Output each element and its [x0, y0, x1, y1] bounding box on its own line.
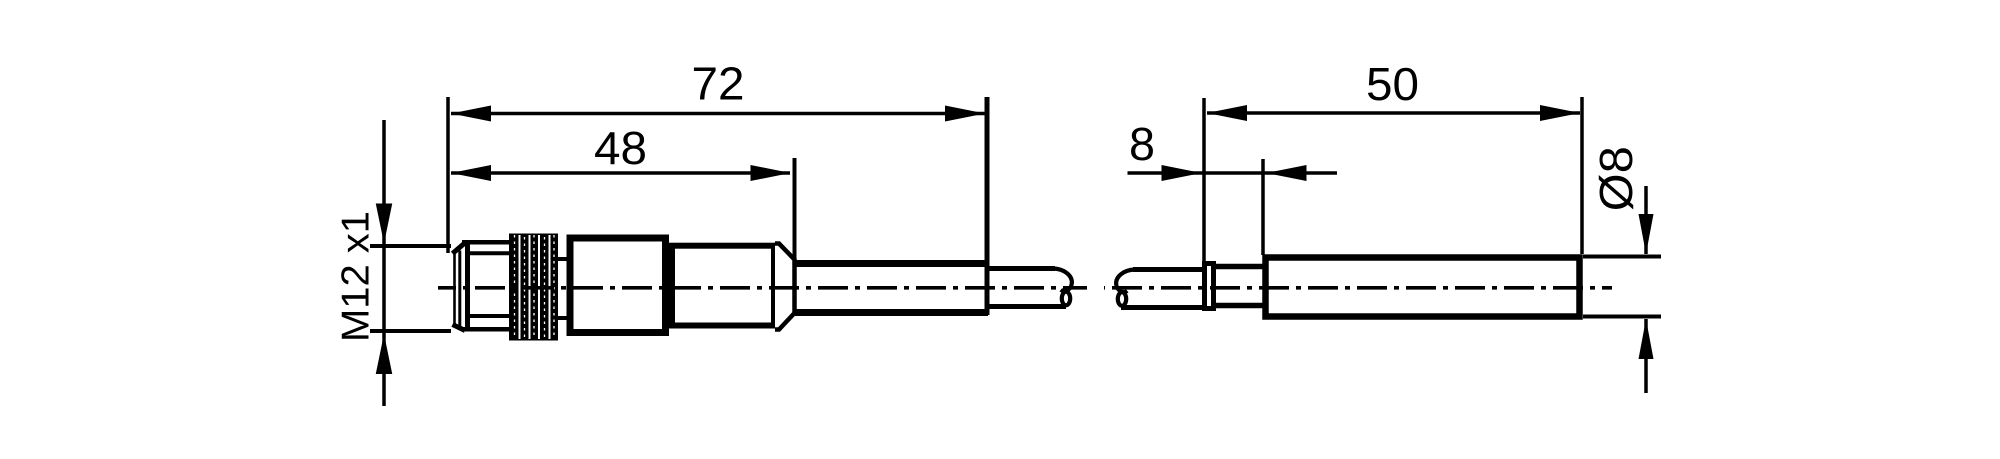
svg-text:M12 x1: M12 x1 — [335, 211, 378, 342]
svg-text:50: 50 — [1366, 58, 1419, 110]
svg-text:48: 48 — [594, 122, 647, 174]
svg-text:Ø8: Ø8 — [1590, 146, 1642, 211]
svg-text:72: 72 — [692, 58, 745, 110]
svg-text:8: 8 — [1129, 118, 1155, 170]
